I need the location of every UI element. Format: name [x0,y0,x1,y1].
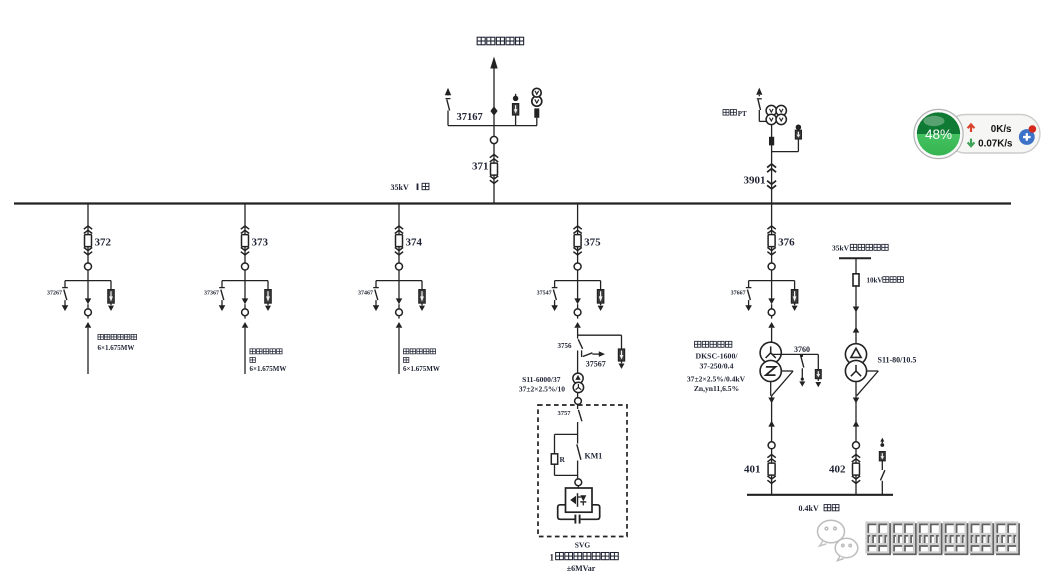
breaker 402 [852,455,860,484]
svg-text:3760: 3760 [794,345,810,354]
capacitor C1 [575,515,579,524]
label 35kV CaiYun substation [832,244,888,253]
earthing switch PT stub [756,88,766,122]
wire capacitor loop [558,505,600,520]
label 3756 [558,342,573,350]
earthing switch 37567 [582,350,605,357]
node 10kV stub bus [839,257,871,259]
grounding transformer GT HV [760,342,781,363]
svg-text:372: 372 [95,236,112,248]
junction circle SVG [575,479,582,488]
transformer T2 LV [845,360,866,381]
earthing switch 37467 [373,281,380,312]
SVG dashed enclosure [538,405,627,537]
disconnect arrows 374 [396,298,403,327]
label 374 circuit [403,349,440,373]
disconnect diamond 371-1 [490,106,497,115]
wire bypass top [555,434,578,453]
label 371 [472,160,489,172]
svg-text:37267: 37267 [47,291,62,297]
svg-text:DKSC-1600/: DKSC-1600/ [695,352,738,361]
label SVG rating [567,564,596,573]
wire 3760 branch [772,353,819,355]
widget speed pill [946,115,1040,154]
svg-text:3757: 3757 [558,410,572,417]
earthing switch 37367 [219,281,226,312]
surge arrester A1 [513,94,519,126]
wire 402 top [855,258,857,343]
disconnect arrows 402 [853,398,860,449]
svg-text:Zn,yn11,6.5%: Zn,yn11,6.5% [694,384,739,393]
disconnect arrows 375 [574,298,581,327]
disconnect arrows 373 [242,298,249,327]
wire 373 tail [244,328,246,374]
svg-text:0.07K/s: 0.07K/s [978,138,1013,149]
svg-text:3756: 3756 [558,342,573,350]
svg-text:R: R [560,455,566,464]
label GT name [687,341,746,393]
watermark wechat logo [818,520,858,560]
grounding transformer GT LV [760,360,781,381]
wire tee 3901 [772,139,799,152]
transformer T1 HV winding [573,373,583,383]
surge arrester 3760 [815,354,821,387]
svg-text:0K/s: 0K/s [991,124,1012,135]
wire incoming line [493,62,495,204]
wire T2 LV exit [856,371,878,396]
label SVG name [550,552,619,562]
resistor R [551,454,557,464]
bus PT windings [766,105,786,124]
label 374 [406,236,423,248]
breaker 374 [395,226,403,255]
wire tee 375 [555,277,601,299]
breaker 372 [84,226,92,255]
wire tee 374 [376,277,422,299]
wire feeder 373 drop [244,204,246,278]
wire 372 tail [87,328,89,374]
svg-text:10kV: 10kV [867,277,883,285]
drawout contacts 3901 [767,164,776,189]
junction circle 376a [768,263,775,270]
wire tee 37167 [448,125,537,127]
surge arrester 375 [597,281,603,311]
label T2 model [878,356,917,365]
svg-text:37-250/0.4: 37-250/0.4 [699,362,733,371]
label 401 [744,463,761,475]
earthing switch 37167 [445,88,451,126]
wire tee 373 [222,277,268,299]
junction circle 374a [396,263,403,270]
svg-text:374: 374 [406,236,423,248]
earthing switch 37267 [62,281,69,312]
junction circle 375b [575,398,582,405]
earthing switch 37667 [745,281,752,312]
svg-text:6×1.675MW: 6×1.675MW [403,365,440,373]
node 35kV I bus [14,202,1011,204]
wire tee 3756 [578,335,622,349]
wire tee 372 [65,277,111,299]
wire feeder 376 drop [771,204,773,278]
wire feeder 372 drop [87,204,89,278]
svg-text:PT: PT [738,110,747,118]
label 372 [95,236,112,248]
surge arrester 376 [791,281,797,311]
wire 376 to GT [771,328,773,343]
label 3901 [744,174,766,186]
fuse 402 [853,274,859,286]
svg-text:375: 375 [584,236,601,248]
surge arrester 372 [108,281,114,311]
label SVG [575,541,591,550]
label 37547 [537,291,552,297]
svg-text:±6MVar: ±6MVar [567,564,596,573]
svg-text:401: 401 [744,463,761,475]
label 37367 [204,291,219,297]
label 373 circuit [250,349,287,373]
wire bypass bottom [555,464,578,475]
label 375 [584,236,601,248]
svg-text:37367: 37367 [204,291,219,297]
label 10kV line [867,277,904,285]
svg-text:6×1.675MW: 6×1.675MW [98,344,135,352]
disconnect arrows 376 [768,298,775,327]
breaker 371 [490,155,498,184]
breaker 401 [767,455,775,484]
label line name DanBiZhaoCai line [477,37,523,45]
disconnect 3757 [578,410,582,435]
svg-text:6×1.675MW: 6×1.675MW [250,365,287,373]
svg-text:S11-80/10.5: S11-80/10.5 [878,356,917,365]
label T1 ratio [519,385,565,394]
label 35kV I bus [391,183,429,192]
svg-text:3901: 3901 [744,174,766,186]
svg-text:371: 371 [472,160,489,172]
svg-text:37±2×2.5%/0.4kV: 37±2×2.5%/0.4kV [687,374,746,383]
breaker 376 [767,226,775,255]
wire 402 drop [855,396,857,495]
disconnect arrows 401 [768,398,775,449]
wire tee 376 [749,277,795,299]
disconnect 3756 [578,339,583,373]
wire 374 tail [398,328,400,374]
junction circle 375a [574,263,581,270]
svg-text:37567: 37567 [586,359,606,368]
junction circle 371a [490,136,497,143]
svg-text:35kV: 35kV [832,244,850,253]
transformer T1 LV winding [573,382,583,392]
earthing switch 37547 [551,281,558,312]
svg-text:48%: 48% [925,127,952,142]
svg-text:37±2×2.5%/10: 37±2×2.5%/10 [519,385,565,394]
breaker 373 [241,226,249,255]
label 37267 [47,291,62,297]
wire PT drop [771,125,773,204]
label 373 [252,236,269,248]
contactor KM1 [577,434,581,479]
label 402 [829,463,846,475]
svg-text:402: 402 [829,463,846,475]
surge arrester 374 [419,281,425,311]
svg-text:373: 373 [252,236,269,248]
svg-text:37547: 37547 [537,291,552,297]
transformer T2 HV [845,344,866,365]
label bus PT [723,110,747,119]
label T1 model [522,375,561,384]
junction circle 372a [85,263,92,270]
svg-text:SVG: SVG [575,541,591,550]
surge arrester 3901 [795,125,801,139]
svg-text:37467: 37467 [358,291,373,297]
svg-text:0.4kV: 0.4kV [799,504,819,513]
arrow line head up [490,57,497,69]
svg-text:37667: 37667 [731,291,746,297]
label 37567 [586,359,606,368]
wire feeder 374 drop [398,204,400,278]
widget download row [968,138,1013,149]
wire T1 to SVG box [577,393,579,409]
watermark title ElectricPowerSafety [866,523,1019,555]
label 37167 [457,112,483,123]
svg-text:35kV: 35kV [391,183,409,192]
wire feeder 375 drop [577,204,579,278]
svg-text:37167: 37167 [457,112,483,123]
disconnect arrows 372 [85,298,92,327]
label 37467 [358,291,373,297]
svg-text:KM1: KM1 [585,452,603,461]
wire GT LV exit [771,371,793,396]
converter unit [566,488,593,512]
wire 401 drop [771,396,773,495]
fuse 3901 [769,137,774,146]
label R [560,455,566,464]
breaker 375 [573,226,581,255]
label 0.4kV bus [799,504,839,513]
label 37667 [731,291,746,297]
disconnect arrows 402t [853,307,860,333]
label 3757 [558,410,572,417]
earthing branch 0.4kV [879,438,885,495]
svg-text:1: 1 [550,552,555,562]
label KM1 [585,452,603,461]
widget plus badge [1019,125,1036,145]
disconnect 3760 [799,354,805,387]
svg-text:376: 376 [778,236,795,248]
voltage transformer PT1 [532,88,542,125]
surge arrester 373 [265,281,271,311]
widget percent ball [914,109,963,158]
label 372 circuit [98,334,137,351]
svg-text:S11-6000/37: S11-6000/37 [522,375,561,384]
node 0.4kV bus [747,494,893,496]
wire 375 to tee2 [577,328,579,339]
label 3760 [794,345,810,354]
surge arrester 375b [618,349,624,369]
label 376 [778,236,795,248]
widget upload row [968,124,1012,135]
junction circle 373a [242,263,249,270]
